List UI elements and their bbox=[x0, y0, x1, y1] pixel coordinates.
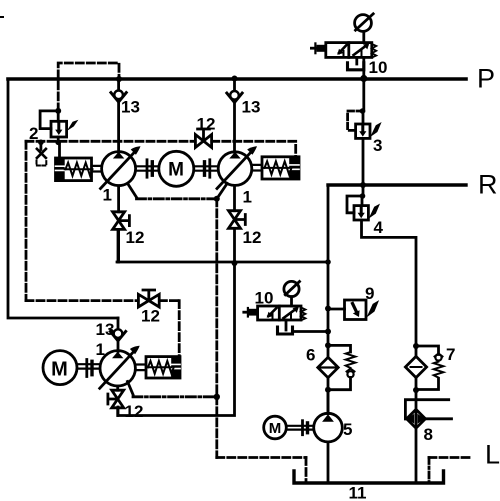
svg-text:M: M bbox=[269, 420, 282, 437]
svg-text:1: 1 bbox=[96, 340, 105, 359]
svg-text:12: 12 bbox=[243, 228, 262, 247]
svg-text:7: 7 bbox=[446, 345, 455, 364]
svg-text:L: L bbox=[485, 440, 500, 470]
svg-text:2: 2 bbox=[29, 124, 38, 143]
svg-text:13: 13 bbox=[121, 98, 140, 117]
svg-text:10: 10 bbox=[255, 289, 274, 308]
svg-text:3: 3 bbox=[373, 136, 382, 155]
svg-text:12: 12 bbox=[141, 307, 160, 326]
svg-text:11: 11 bbox=[349, 484, 367, 501]
svg-text:12: 12 bbox=[126, 228, 145, 247]
svg-text:P: P bbox=[477, 64, 495, 94]
svg-text:6: 6 bbox=[306, 346, 315, 365]
svg-text:12: 12 bbox=[197, 115, 216, 134]
svg-text:5: 5 bbox=[343, 420, 352, 439]
svg-text:10: 10 bbox=[369, 58, 388, 77]
svg-text:1: 1 bbox=[103, 186, 112, 205]
svg-text:M: M bbox=[168, 159, 184, 180]
svg-text:12: 12 bbox=[125, 402, 144, 421]
svg-text:R: R bbox=[478, 170, 498, 200]
svg-text:13: 13 bbox=[242, 98, 261, 117]
svg-text:13: 13 bbox=[96, 320, 115, 339]
svg-text:4: 4 bbox=[374, 218, 384, 237]
svg-text:8: 8 bbox=[424, 425, 433, 444]
svg-text:1: 1 bbox=[243, 188, 252, 207]
svg-text:M: M bbox=[51, 359, 68, 381]
svg-text:9: 9 bbox=[365, 284, 374, 303]
